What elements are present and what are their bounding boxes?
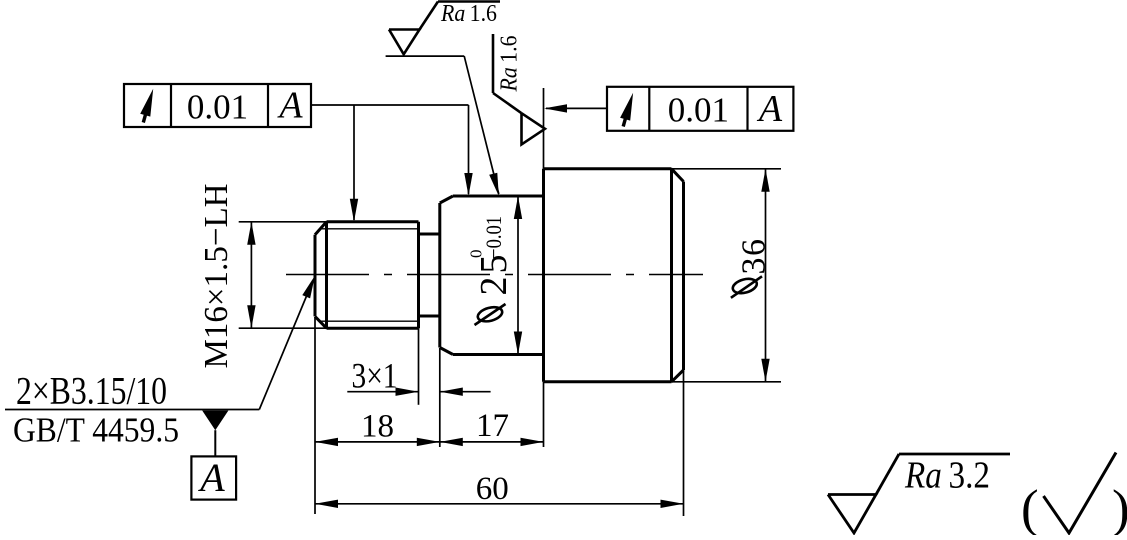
svg-text:0.01: 0.01 <box>187 88 248 127</box>
svg-text:3×1: 3×1 <box>352 356 398 396</box>
phi36 dimension arrow top <box>761 169 769 192</box>
leader arrow onto thread surface <box>350 199 358 222</box>
svg-text:GB/T 4459.5: GB/T 4459.5 <box>13 411 179 450</box>
17 arrow left <box>440 438 463 446</box>
phi36 top extension line <box>672 168 782 170</box>
right end extension line (for 60) <box>683 370 685 516</box>
M16 top extension line <box>239 221 327 223</box>
phi25 bottom line <box>453 353 544 356</box>
phi36 top line <box>544 167 672 170</box>
3x1 dimension line left part <box>347 391 418 393</box>
leader arrow onto phi25 surface <box>464 173 472 196</box>
datum letter box <box>191 456 236 499</box>
centerline (shaft axis) <box>286 274 703 276</box>
thread minor diameter bottom line (thin) <box>320 320 419 322</box>
svg-text:2×B3.15/10: 2×B3.15/10 <box>16 370 167 413</box>
phi36 chamfer slant bottom <box>672 370 684 382</box>
svg-text:): ) <box>1112 480 1127 535</box>
surface finish symbol Ra1.6 rotated on shoulder face <box>493 34 545 144</box>
dimension line 17 <box>440 441 544 443</box>
svg-text:Ra 1.6: Ra 1.6 <box>497 36 523 93</box>
left frame leader drop to phi25 <box>468 105 470 194</box>
phi36 left face <box>542 169 545 382</box>
phi25 left chamfer face <box>438 203 441 348</box>
datum stem <box>214 430 216 456</box>
Ra1.6 leader horizontal segment <box>386 55 465 57</box>
M16 bottom extension line <box>239 327 327 329</box>
svg-text:−0.01: −0.01 <box>481 216 506 259</box>
label phi25 <box>467 216 515 325</box>
right frame leader horizontal <box>546 107 607 109</box>
18 arrow left <box>315 438 338 446</box>
phi36 left face extension line above part <box>543 88 545 169</box>
svg-text:M16×1.5−LH: M16×1.5−LH <box>198 184 235 369</box>
phi25 top line <box>453 195 544 198</box>
phi25 dimension arrow bottom <box>514 332 522 355</box>
thread end face (left end of shaft) <box>314 235 317 317</box>
feature control frame left (circular runout 0.01 A) <box>124 84 311 127</box>
svg-text:36: 36 <box>736 238 773 275</box>
surface finish symbol Ra3.2 (general) <box>828 454 1010 533</box>
phi25 chamfer slant top <box>440 196 453 203</box>
svg-text:Ra 1.6: Ra 1.6 <box>440 1 497 27</box>
left end extension line (for 18 and 60) <box>314 317 316 514</box>
dimension line 60 <box>315 503 684 505</box>
phi36 dimension line <box>765 169 767 382</box>
label phi36 <box>731 238 773 298</box>
thread minor diameter top line (thin) <box>320 228 419 230</box>
Ra1.6 leader arrow <box>489 173 499 196</box>
svg-text:18: 18 <box>361 409 394 445</box>
phi25 chamfer slant bottom <box>440 348 453 355</box>
phi36 right end face <box>682 182 685 371</box>
left frame leader horizontal <box>311 104 469 106</box>
svg-text:(: ( <box>1021 480 1039 535</box>
phi36 chamfer slant top <box>672 169 684 182</box>
groove 3x1 bottom line <box>419 315 440 318</box>
18 arrow right <box>417 438 440 446</box>
basic surface symbol (check mark) <box>1044 453 1117 534</box>
60 arrow left <box>315 500 338 508</box>
3x1 dimension line right part <box>440 391 491 393</box>
phi25 dimension arrow top <box>514 196 522 219</box>
M16 dimension line <box>250 222 252 328</box>
thread major diameter top line <box>327 220 419 223</box>
dimension line 18 <box>315 441 440 443</box>
centre hole leader shelf line <box>5 409 259 411</box>
thread chamfer-end circle line <box>325 222 328 328</box>
centre hole leader arrow <box>302 276 315 299</box>
phi36 left face extension below (for 17) <box>543 382 545 447</box>
svg-text:60: 60 <box>476 471 509 507</box>
svg-text:17: 17 <box>476 408 509 444</box>
datum A triangle (filled) <box>202 411 228 431</box>
phi36 right chamfer circle line <box>670 169 673 382</box>
groove left extension line <box>418 328 420 405</box>
circular runout symbol right <box>620 93 633 127</box>
groove right extension line <box>439 348 441 447</box>
centre hole leader slant <box>259 281 313 410</box>
circular runout symbol left <box>140 89 153 123</box>
surface finish symbol Ra1.6 on phi25 <box>389 2 500 55</box>
thread end chamfer bottom <box>315 316 327 328</box>
phi36 bottom line <box>544 380 672 383</box>
groove 3x1 top line <box>419 233 440 236</box>
phi36 bottom extension line <box>672 381 782 383</box>
svg-text:0.01: 0.01 <box>668 91 729 130</box>
Ra1.6 leader slant to phi25 surface <box>464 56 499 194</box>
M16 dimension arrow top <box>247 222 255 245</box>
phi36 dimension arrow bottom <box>761 359 769 382</box>
thread right shoulder face <box>417 222 420 328</box>
phi25 dimension line <box>517 196 519 355</box>
svg-text:A: A <box>756 88 783 130</box>
svg-text:A: A <box>276 85 303 127</box>
right frame leader arrow onto phi36 face extension <box>544 104 567 112</box>
M16 dimension arrow bottom <box>247 305 255 328</box>
svg-text:Ra 3.2: Ra 3.2 <box>904 455 990 497</box>
3x1 arrow pointing right <box>396 388 419 396</box>
17 arrow right <box>521 438 544 446</box>
60 arrow right <box>661 500 684 508</box>
3x1 arrow pointing left <box>440 388 463 396</box>
thread major diameter bottom line <box>327 327 419 330</box>
thread end chamfer top <box>315 222 327 235</box>
feature control frame right (circular runout 0.01 A) <box>607 87 793 131</box>
left frame leader drop to thread <box>353 105 355 220</box>
svg-text:A: A <box>197 455 225 500</box>
